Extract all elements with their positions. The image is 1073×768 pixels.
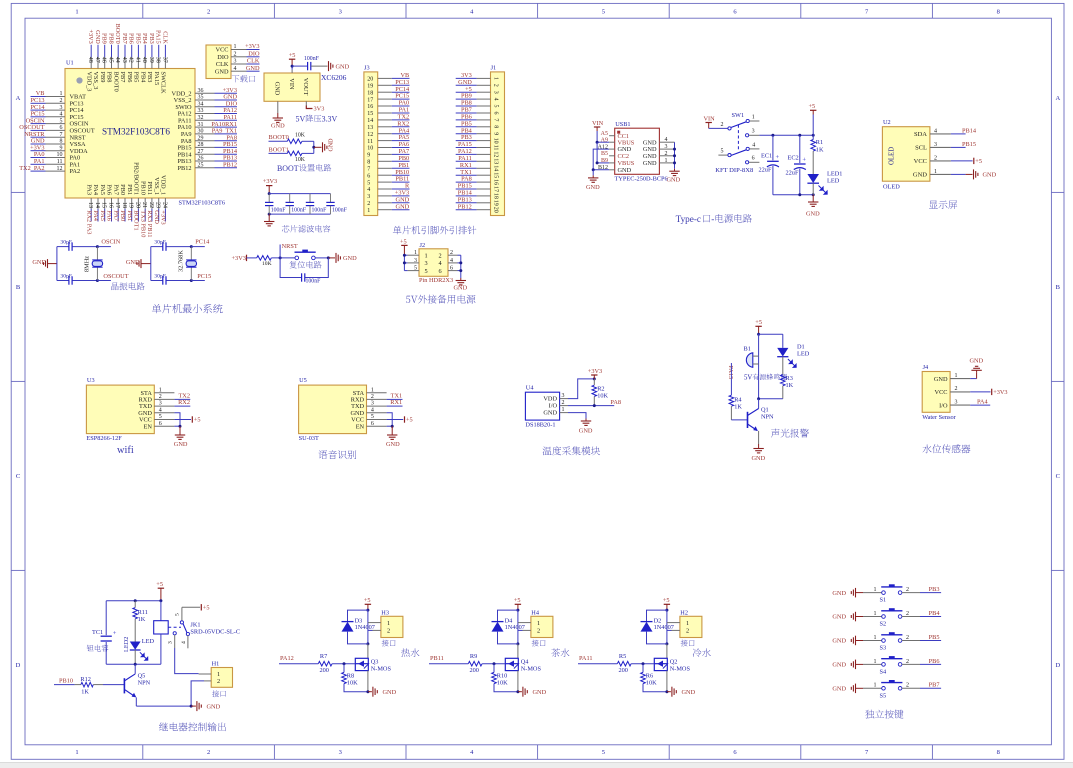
svg-text:3V3: 3V3 (314, 106, 325, 113)
wire (271, 257, 297, 259)
svg-text:H1: H1 (212, 661, 220, 668)
svg-text:J4: J4 (923, 364, 929, 371)
svg-text:LED1: LED1 (827, 171, 842, 178)
svg-text:3: 3 (934, 142, 937, 148)
svg-text:+3V3: +3V3 (245, 43, 259, 50)
resistor R4 1K (729, 395, 734, 406)
capacitor 100nF (289, 194, 291, 203)
diode D1 LED (782, 334, 784, 348)
net OSCOUT (97, 280, 111, 282)
svg-text:GND: GND (618, 167, 632, 174)
svg-text:VIN: VIN (592, 120, 604, 127)
svg-text:4: 4 (934, 128, 937, 134)
svg-text:+5: +5 (400, 239, 407, 246)
wire junction (313, 141, 315, 153)
svg-text:+: + (776, 154, 780, 161)
wire SDA to PB14 (951, 133, 966, 135)
sensor U4 DS18B20-1 (525, 368, 621, 455)
wire VCC to +3V3 (970, 391, 990, 393)
svg-text:GND: GND (806, 210, 820, 217)
svg-text:6: 6 (371, 421, 374, 427)
wire (291, 66, 293, 70)
svg-text:TX2 PA2: TX2 PA2 (19, 165, 44, 172)
svg-text:4: 4 (60, 112, 63, 118)
diode D4 1N4007 flyback loop (498, 610, 518, 622)
svg-text:B: B (1056, 284, 1061, 291)
crystal (96, 247, 98, 260)
svg-text:38: 38 (155, 57, 161, 63)
svg-text:+5: +5 (514, 597, 521, 604)
push button S1 (882, 591, 886, 595)
svg-text:1: 1 (159, 387, 162, 393)
ground (806, 195, 820, 218)
ground (585, 419, 587, 422)
svg-text:GND: GND (832, 662, 846, 669)
svg-text:+3V3: +3V3 (993, 389, 1007, 396)
svg-text:GND: GND (643, 153, 657, 160)
top rail wire (759, 333, 783, 335)
svg-text:PA0: PA0 (399, 100, 410, 107)
svg-text:H3: H3 (381, 609, 389, 616)
svg-text:4: 4 (752, 142, 755, 148)
svg-text:D1: D1 (797, 344, 805, 351)
svg-text:PB9: PB9 (99, 72, 106, 83)
svg-text:39: 39 (148, 57, 154, 63)
bottom wire to gnd (344, 684, 368, 692)
svg-text:3: 3 (234, 59, 237, 65)
svg-text:PA3: PA3 (85, 184, 92, 195)
svg-text:+5: +5 (663, 597, 670, 604)
wire pin5 VCC to +5 (174, 419, 191, 421)
wire I/O to PA8 (568, 405, 614, 407)
svg-text:GND: GND (832, 614, 846, 621)
svg-text:1: 1 (665, 158, 668, 164)
svg-text:1: 1 (414, 250, 417, 256)
net OSCIN (97, 246, 111, 248)
svg-text:GND: GND (207, 703, 221, 710)
svg-text:2: 2 (367, 201, 370, 207)
svg-text:J1: J1 (491, 65, 497, 72)
svg-text:11: 11 (367, 139, 373, 145)
alarm circuit (727, 319, 809, 462)
svg-text:PB11: PB11 (430, 655, 444, 662)
top capacitor 30pF (151, 246, 163, 248)
svg-text:PB5: PB5 (929, 634, 940, 641)
net PC14 (191, 246, 205, 248)
svg-text:GND: GND (94, 30, 101, 44)
svg-text:46: 46 (101, 57, 107, 63)
svg-text:2: 2 (906, 659, 909, 665)
svg-text:KFT DIP-8X8: KFT DIP-8X8 (715, 167, 754, 174)
svg-text:PA15: PA15 (153, 72, 160, 86)
svg-text:GND: GND (32, 259, 46, 266)
svg-text:13: 13 (492, 158, 498, 164)
svg-text:S3: S3 (880, 645, 887, 652)
svg-text:42: 42 (128, 57, 134, 63)
svg-text:GND: GND (271, 123, 285, 130)
wire to net PB7 (902, 687, 920, 689)
svg-text:BOOT0: BOOT0 (114, 24, 121, 44)
svg-text:2: 2 (562, 400, 565, 406)
power +5 (289, 58, 295, 60)
svg-text:1K: 1K (816, 146, 824, 153)
svg-text:1: 1 (371, 387, 374, 393)
wire (856, 687, 863, 689)
svg-text:PB3: PB3 (146, 72, 153, 83)
relay control circuit (54, 581, 240, 731)
svg-text:6: 6 (450, 266, 453, 272)
connector H2 (680, 616, 702, 637)
svg-text:100nF: 100nF (271, 208, 287, 214)
pin6 (746, 161, 749, 164)
svg-text:N-MOS: N-MOS (371, 665, 392, 672)
svg-text:PB7: PB7 (119, 72, 126, 83)
svg-text:11: 11 (492, 145, 498, 151)
svg-text:3: 3 (425, 260, 428, 267)
svg-text:5: 5 (175, 613, 181, 616)
wire +5 vertical (367, 610, 369, 644)
svg-text:14: 14 (492, 165, 498, 171)
svg-text:20: 20 (367, 77, 373, 83)
mosfet Q2 N-MOS (666, 644, 668, 658)
svg-text:R12: R12 (80, 676, 91, 683)
svg-text:8: 8 (492, 125, 498, 128)
diode D3 1N4007 flyback loop (348, 610, 368, 622)
svg-text:-: - (711, 214, 714, 224)
svg-text:PC14: PC14 (195, 238, 210, 245)
ground (268, 214, 270, 219)
ground (671, 687, 673, 697)
svg-text:LED2: LED2 (123, 637, 130, 652)
svg-text:RX2: RX2 (178, 399, 190, 406)
svg-text:1: 1 (387, 620, 390, 627)
left rail wire (56, 247, 58, 281)
svg-text:SWCLK: SWCLK (160, 72, 167, 94)
svg-text:OSCOUT: OSCOUT (103, 273, 128, 280)
connector J2 Pin HDR2X3 (400, 239, 475, 304)
svg-text:C: C (1056, 473, 1060, 480)
svg-text:4: 4 (181, 641, 187, 644)
svg-text:1: 1 (367, 208, 370, 214)
svg-text:8: 8 (60, 139, 63, 145)
ground (372, 687, 374, 697)
svg-text:Type-c: Type-c (676, 214, 701, 224)
svg-text:PA6: PA6 (106, 184, 113, 195)
svg-text:GND: GND (643, 160, 657, 167)
svg-text:19: 19 (492, 200, 498, 206)
svg-text:DIO: DIO (217, 54, 229, 61)
svg-text:12: 12 (367, 132, 373, 138)
svg-text:1K: 1K (138, 616, 146, 623)
bottom loop with capacitor 100nF (280, 258, 301, 278)
svg-text:10K: 10K (497, 680, 508, 687)
svg-text:2: 2 (906, 635, 909, 641)
svg-text:GND: GND (832, 686, 846, 693)
svg-text:PB7: PB7 (121, 33, 128, 44)
svg-text:R11: R11 (138, 609, 148, 616)
svg-text:3: 3 (367, 194, 370, 200)
wire to net PB5 (902, 640, 920, 642)
svg-text:PB0: PB0 (119, 184, 126, 195)
svg-text:PB3: PB3 (929, 586, 940, 593)
diode D2 1N4007 flyback loop (647, 610, 667, 622)
svg-text:10K: 10K (597, 392, 608, 399)
svg-text:10K: 10K (295, 133, 306, 139)
usb connector USB1 TYPEC-250D-BCP6 (586, 120, 681, 191)
svg-text:PB12: PB12 (178, 165, 192, 172)
svg-text:3: 3 (168, 641, 174, 644)
svg-text:23: 23 (155, 202, 161, 208)
svg-text:30pF: 30pF (60, 239, 72, 245)
svg-text:A: A (1055, 95, 1060, 102)
independent buttons S1-S5 (832, 584, 941, 718)
capacitor TC1 tantalum (105, 601, 107, 635)
svg-text:I/O: I/O (939, 402, 948, 409)
svg-text:GND: GND (832, 590, 846, 597)
ground (758, 431, 760, 444)
svg-text:32: 32 (198, 115, 204, 121)
svg-text:3: 3 (339, 9, 342, 16)
wire VCC to +5 (951, 160, 973, 162)
svg-text:5V: 5V (744, 375, 752, 382)
capacitor 100nF (307, 62, 309, 70)
svg-text:SW1: SW1 (732, 112, 745, 119)
svg-text:9: 9 (367, 153, 370, 159)
svg-text:21: 21 (141, 202, 147, 208)
display U2 OLED (882, 119, 996, 209)
svg-text:5: 5 (414, 266, 417, 272)
svg-text:VCC: VCC (935, 389, 948, 396)
svg-text:PA6: PA6 (106, 210, 113, 221)
top rail wire (269, 193, 330, 195)
svg-text:R9: R9 (470, 653, 477, 660)
svg-text:18: 18 (121, 202, 127, 208)
svg-text:SU-03T: SU-03T (299, 435, 319, 442)
svg-text:CLK: CLK (216, 61, 229, 68)
svg-text:37: 37 (161, 57, 167, 63)
left junction wire (403, 255, 405, 270)
wire GND down (568, 413, 586, 419)
svg-text:+3V3: +3V3 (588, 368, 602, 375)
svg-text:LED: LED (797, 351, 810, 358)
svg-text:PB0: PB0 (398, 155, 409, 162)
svg-text:PB4: PB4 (139, 72, 146, 84)
svg-text:U1: U1 (66, 60, 74, 67)
svg-text:Q5: Q5 (138, 672, 146, 679)
bottom rail wire (269, 213, 330, 215)
svg-text:3: 3 (339, 749, 342, 756)
svg-text:DIO: DIO (248, 51, 260, 58)
svg-text:10K: 10K (646, 680, 657, 687)
module U5 SU-03T (299, 377, 413, 459)
svg-text:4: 4 (367, 187, 370, 193)
svg-text:+5: +5 (194, 417, 201, 424)
svg-text:17: 17 (367, 97, 373, 103)
svg-text:3: 3 (60, 105, 63, 111)
svg-text:VIN: VIN (704, 116, 716, 123)
svg-text:30pF: 30pF (60, 273, 72, 279)
svg-text:6: 6 (60, 125, 63, 131)
switch SW1 KFT DIP-8X8 (704, 112, 815, 174)
svg-text:R4: R4 (734, 397, 742, 404)
bottom rail wire (773, 194, 813, 196)
svg-text:+5: +5 (406, 417, 413, 424)
svg-text:J3: J3 (364, 65, 370, 72)
resistor 10K (257, 256, 272, 261)
wire pin1 (749, 120, 759, 122)
svg-text:GND: GND (274, 82, 281, 96)
svg-text:10: 10 (367, 146, 373, 152)
svg-text:VDD_3: VDD_3 (85, 72, 92, 92)
svg-text:1: 1 (425, 252, 428, 259)
svg-text:VIN: VIN (288, 78, 295, 90)
svg-text:45: 45 (107, 57, 113, 63)
svg-text:RX2 PA3: RX2 PA3 (85, 210, 92, 234)
J3 pin wires and net labels (378, 77, 392, 79)
regulator XC6206 5V to 3.3V (264, 52, 350, 130)
svg-text:PA8: PA8 (610, 399, 621, 406)
svg-text:PB5: PB5 (133, 72, 140, 83)
svg-text:15: 15 (492, 172, 498, 178)
svg-text:29: 29 (198, 135, 204, 141)
svg-text:10K: 10K (347, 680, 358, 687)
svg-text:R10: R10 (497, 672, 508, 679)
ground (322, 142, 324, 152)
svg-text:20: 20 (134, 202, 140, 208)
relay switch (181, 607, 183, 621)
top capacitor 30pF (57, 246, 69, 248)
svg-text:R5: R5 (619, 653, 626, 660)
svg-text:PB4: PB4 (141, 33, 148, 45)
svg-text:GND: GND (832, 638, 846, 645)
svg-text:6: 6 (492, 112, 498, 115)
svg-text:JK1: JK1 (190, 622, 200, 629)
svg-text:DS18B20-1: DS18B20-1 (525, 421, 555, 428)
svg-text:N-MOS: N-MOS (670, 665, 691, 672)
svg-text:SDA: SDA (914, 131, 927, 138)
svg-text:2: 2 (906, 587, 909, 593)
svg-text:2: 2 (934, 155, 937, 161)
svg-text:7: 7 (492, 118, 498, 121)
svg-text:+5: +5 (975, 158, 982, 165)
wire GND up to ground (970, 378, 976, 380)
chip filter capacitors 4x100nF (263, 178, 348, 232)
svg-text:4: 4 (665, 137, 668, 143)
svg-text:5: 5 (492, 105, 498, 108)
svg-text:3.3V: 3.3V (322, 115, 338, 124)
svg-text:H4: H4 (531, 609, 540, 616)
connector H4 (531, 616, 553, 637)
svg-text:18: 18 (492, 193, 498, 199)
wire VDD up to +3V3 (568, 379, 594, 399)
svg-text:3: 3 (955, 400, 958, 406)
buzzer B1 5V active (758, 334, 760, 399)
resistor R1 1K (811, 135, 824, 174)
mosfet Q4 N-MOS (517, 644, 519, 658)
ground (522, 687, 524, 697)
svg-text:25: 25 (198, 163, 204, 169)
svg-text:1K: 1K (81, 689, 89, 696)
svg-text:26: 26 (198, 156, 204, 162)
capacitor 100nF (330, 194, 332, 203)
svg-text:2: 2 (207, 9, 210, 16)
svg-text:GND: GND (970, 358, 984, 365)
resistor R9 200 (468, 661, 482, 666)
svg-text:2: 2 (665, 151, 668, 157)
right GND pins (659, 141, 674, 143)
svg-text:1: 1 (934, 169, 937, 175)
svg-text:PA15: PA15 (727, 366, 734, 380)
pin4 arm (746, 147, 749, 150)
svg-text:4: 4 (371, 407, 374, 413)
svg-text:100nF: 100nF (312, 208, 328, 214)
svg-text:5: 5 (425, 268, 428, 275)
svg-text:PB10: PB10 (139, 181, 146, 195)
svg-text:2: 2 (439, 252, 442, 259)
mcu U1 STM32F103C8T6 (19, 24, 238, 238)
push button S2 (882, 615, 886, 619)
svg-text:PA11: PA11 (458, 155, 472, 162)
svg-text:B: B (16, 284, 21, 291)
svg-text:6: 6 (752, 156, 755, 162)
svg-text:CC2: CC2 (618, 153, 630, 160)
svg-text:PB7: PB7 (929, 682, 940, 689)
right pin bank wires and net labels (195, 92, 215, 94)
svg-text:2: 2 (955, 386, 958, 392)
svg-text:PB12: PB12 (458, 203, 472, 210)
net BOOT0 (269, 140, 288, 142)
top rail wire (106, 600, 161, 602)
svg-text:1: 1 (874, 611, 877, 617)
svg-text:12: 12 (492, 151, 498, 157)
svg-text:PB1: PB1 (126, 210, 133, 221)
svg-text:TYPEC-250D-BCP6: TYPEC-250D-BCP6 (615, 176, 668, 183)
svg-text:PA4: PA4 (977, 398, 988, 405)
svg-text:40: 40 (141, 57, 147, 63)
wire VBUS net (597, 141, 609, 143)
svg-text:11: 11 (57, 159, 63, 165)
svg-text:30pF: 30pF (154, 239, 166, 245)
wire (856, 616, 863, 618)
wire (311, 65, 327, 67)
svg-text:GND: GND (246, 65, 260, 72)
svg-text:+5: +5 (289, 52, 296, 59)
diode LED2 (130, 642, 141, 650)
svg-text:7: 7 (60, 132, 63, 138)
svg-text:2: 2 (234, 52, 237, 58)
bottom gnd rail wire (136, 705, 191, 707)
wire SCL to PB15 (951, 146, 966, 148)
svg-text:PA5: PA5 (99, 184, 106, 195)
svg-text:STM32F103C8T6: STM32F103C8T6 (179, 200, 226, 207)
svg-text:PB10: PB10 (59, 678, 73, 685)
svg-text:2: 2 (371, 394, 374, 400)
svg-text:5V: 5V (296, 115, 306, 124)
svg-text:R3: R3 (786, 375, 793, 382)
svg-text:5: 5 (721, 149, 724, 155)
svg-text:PB4: PB4 (929, 610, 941, 617)
svg-text:2: 2 (492, 84, 498, 87)
svg-text:PB14: PB14 (962, 127, 977, 134)
net PC15 (191, 280, 205, 282)
bottom rail wire (106, 663, 161, 665)
header J3 20-pin (364, 65, 410, 216)
svg-text:1: 1 (562, 407, 565, 413)
ground (335, 253, 337, 263)
svg-text:LED: LED (827, 178, 840, 185)
svg-text:PA4: PA4 (92, 184, 99, 195)
svg-text:31: 31 (198, 122, 204, 128)
